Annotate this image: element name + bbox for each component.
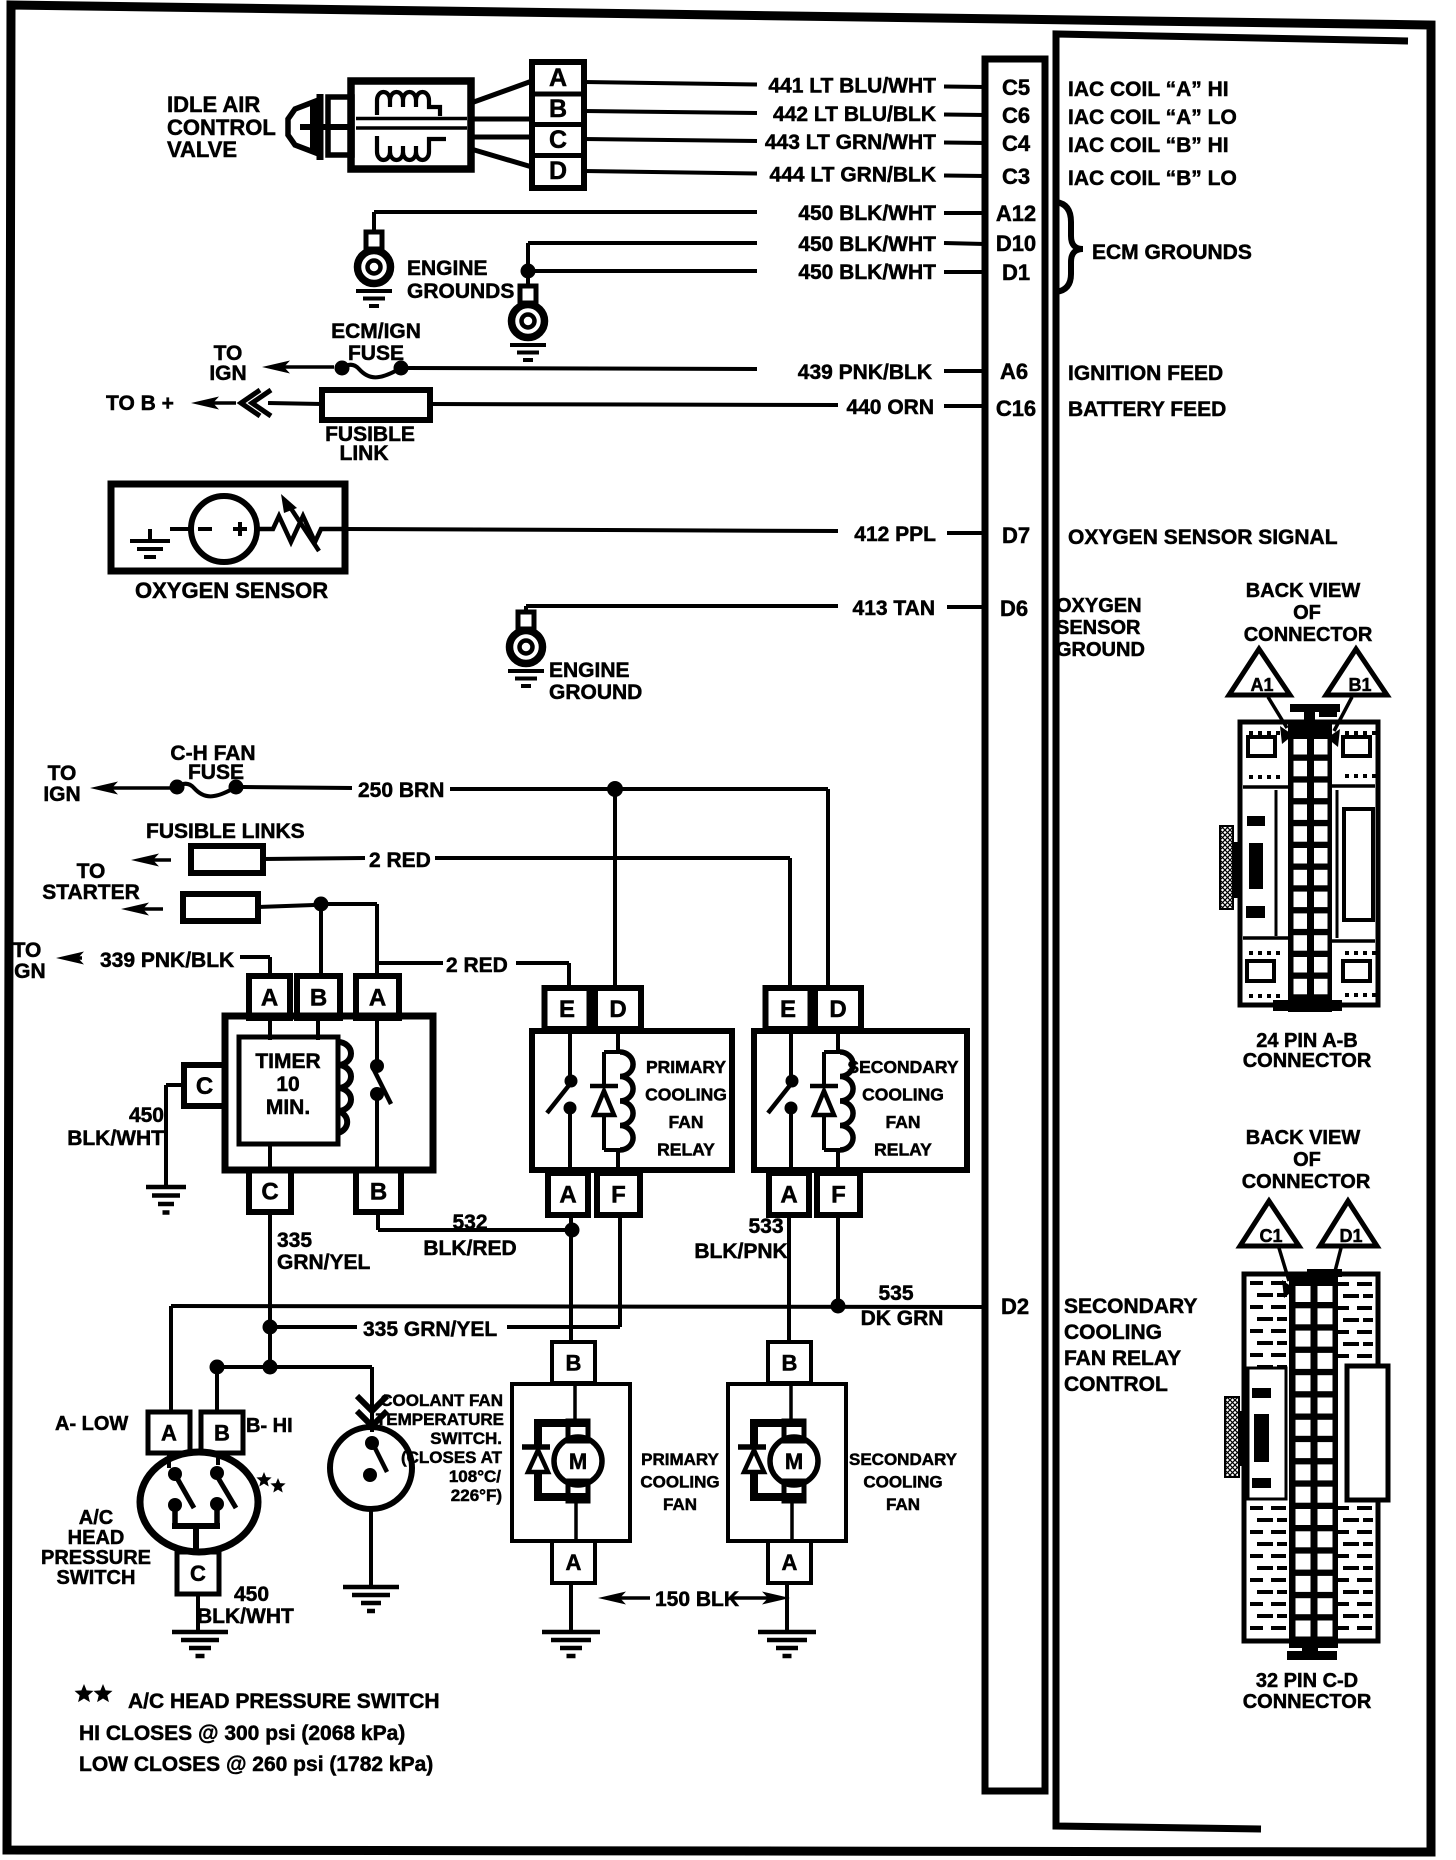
wire 532 BLK/RED [378,1211,572,1260]
wire 440 ORN [430,396,985,419]
svg-text:24 PIN A-B: 24 PIN A-B [1256,1030,1358,1052]
junction fusible link [314,897,329,912]
svg-text:IGN: IGN [43,783,80,806]
timer pin C bottom [249,1170,291,1212]
svg-text:C: C [549,126,567,154]
timer pin B top [297,976,340,1018]
svg-text:F: F [831,1182,846,1209]
wire relay F primary [618,1215,622,1327]
svg-text:HEAD: HEAD [68,1527,125,1549]
svg-text:IAC COIL “B” HI: IAC COIL “B” HI [1068,134,1229,157]
svg-text:A: A [261,985,278,1012]
svg-text:STARTER: STARTER [42,881,140,904]
label BACK VIEW OF CONNECTOR top [1244,580,1373,646]
fuse ECM/IGN [335,361,350,376]
callout triangle D1 [1320,1201,1377,1299]
svg-text:ENGINE: ENGINE [407,257,488,280]
svg-text:D10: D10 [996,231,1036,256]
wire 450 BLK/WHT D1 [528,261,985,284]
fusible link F1 [268,390,430,420]
svg-text:GROUND: GROUND [1056,639,1145,661]
wire 450 BLK/WHT timer [166,1085,184,1185]
engine ground G2 [510,286,546,360]
svg-text:TIMER: TIMER [255,1050,320,1073]
svg-text:COOLING: COOLING [640,1473,719,1492]
svg-text:ENGINE: ENGINE [549,659,630,682]
engine ground G1 [356,232,392,306]
wire 250 BRN [243,779,828,988]
svg-text:CONNECTOR: CONNECTOR [1242,1171,1371,1193]
svg-text:A: A [559,1182,576,1209]
svg-text:FAN: FAN [663,1495,697,1514]
label ECM/IGN FUSE [331,320,421,365]
IAC valve U1 [288,81,471,169]
svg-text:535: 535 [878,1282,913,1305]
A/C switch pin C [177,1552,219,1594]
primary cooling fan relay K2 [532,1029,732,1170]
label BACK VIEW OF CONNECTOR bottom [1242,1127,1371,1193]
svg-text:D: D [609,996,626,1023]
svg-text:450: 450 [129,1104,164,1127]
svg-text:BACK VIEW: BACK VIEW [1246,580,1361,602]
svg-text:440 ORN: 440 ORN [846,396,934,419]
svg-text:SECONDARY: SECONDARY [1064,1295,1197,1318]
label FUSIBLE LINK [325,423,415,465]
svg-text:532: 532 [452,1211,487,1234]
svg-text:32 PIN C-D: 32 PIN C-D [1256,1670,1358,1692]
svg-text:OXYGEN SENSOR: OXYGEN SENSOR [135,578,328,603]
svg-text:A: A [780,1182,797,1209]
svg-text:TEMPERATURE: TEMPERATURE [376,1410,504,1429]
24 pin connector body [1240,704,1378,1012]
wire 335 GRN/YEL label row [270,1318,620,1341]
wire to starter 1 [131,854,159,867]
label SECONDARY COOLING FAN RELAY CONTROL [1064,1295,1197,1396]
asterisks note [75,1684,113,1702]
svg-text:COOLING: COOLING [1064,1321,1162,1344]
svg-text:FAN: FAN [886,1495,920,1514]
svg-text:150 BLK: 150 BLK [655,1588,739,1611]
primary cooling fan M1 [512,1383,630,1541]
primary cooling fan M1 wire to ground [569,1583,573,1631]
secondary cooling fan M2 label [849,1450,958,1514]
svg-text:TO: TO [13,939,42,962]
timer pin A1 [249,976,290,1018]
chevrons battery side [241,390,271,416]
svg-text:SWITCH.: SWITCH. [430,1429,502,1448]
svg-text:A: A [782,1550,798,1575]
wire 413 TAN [526,597,985,620]
primary cooling fan M1 pin B [552,1342,595,1383]
svg-text:IAC COIL “A” LO: IAC COIL “A” LO [1068,106,1237,129]
wire relay A to fan B primary [569,1215,573,1342]
wire 450 BLK/WHT D10 [528,233,985,271]
timer pin B bottom [356,1170,401,1212]
svg-text:DK GRN: DK GRN [861,1307,944,1330]
svg-text:FAN RELAY: FAN RELAY [1064,1347,1181,1370]
wire 439 PNK/BLK [408,361,985,384]
svg-text:TO: TO [77,860,106,883]
wire IAC C to connector [471,135,532,140]
svg-text:A1: A1 [1250,675,1273,695]
wire IAC A to connector [471,81,532,103]
svg-text:B: B [549,95,567,123]
svg-text:OF: OF [1293,602,1321,624]
svg-text:CONTROL: CONTROL [1064,1373,1168,1396]
svg-text:TO: TO [48,762,77,785]
wire 441 LT BLU/WHT [584,82,757,85]
thumbscrew 32 pin [1225,1397,1246,1477]
svg-text:C1: C1 [1259,1226,1282,1246]
svg-text:C4: C4 [1002,131,1031,156]
svg-text:CONNECTOR: CONNECTOR [1244,624,1373,646]
svg-text:FAN: FAN [669,1112,704,1132]
callout triangle C1 [1240,1201,1299,1298]
svg-text:C16: C16 [996,396,1036,421]
svg-text:IGNITION FEED: IGNITION FEED [1068,362,1223,385]
label TO IGN 339 [8,939,45,983]
label 24 PIN A-B CONNECTOR [1243,1030,1372,1072]
ground A/C switch [172,1630,228,1635]
primary cooling fan relay K2 pin F [597,1173,640,1215]
primary cooling fan M1 label [640,1450,719,1514]
wire IAC D to connector [471,149,532,167]
label 450 BLK/WHT switch [197,1583,294,1628]
svg-text:IGN: IGN [209,362,246,385]
primary cooling fan relay K2 pin D [595,988,641,1029]
svg-text:(CLOSES AT: (CLOSES AT [401,1448,503,1467]
svg-text:BLK/RED: BLK/RED [423,1237,516,1260]
svg-text:COOLING: COOLING [862,1085,944,1105]
wire to ignition [262,361,290,374]
junction 335 upper [263,1320,278,1335]
asterisks switch [256,1472,271,1487]
junction 250 BRN [607,781,623,797]
svg-text:D: D [549,157,567,185]
primary cooling fan relay K2 pin A [548,1173,588,1215]
svg-text:A: A [369,985,386,1012]
svg-text:M: M [569,1449,587,1474]
svg-text:C: C [190,1561,206,1586]
svg-text:A12: A12 [996,201,1036,226]
wire 2 RED lower [258,904,377,976]
A/C switch pin B [201,1412,243,1453]
fusible link F3 [183,894,258,921]
svg-text:335 GRN/YEL: 335 GRN/YEL [363,1318,497,1341]
svg-text:450: 450 [234,1583,269,1606]
secondary cooling fan M2 wire to ground [785,1583,789,1631]
svg-text:442 LT BLU/BLK: 442 LT BLU/BLK [773,103,936,126]
label TO IGN upper [209,342,246,385]
svg-text:SECONDARY: SECONDARY [847,1057,958,1077]
timer pin C left [184,1065,225,1106]
wire 2 RED upper [263,849,790,988]
fusible link F2 [191,846,263,873]
svg-text:413 TAN: 413 TAN [853,597,935,620]
secondary cooling fan relay K3 pin E [766,988,811,1029]
svg-text:BLK/PNK: BLK/PNK [694,1240,787,1263]
svg-text:OXYGEN SENSOR SIGNAL: OXYGEN SENSOR SIGNAL [1068,526,1338,549]
label TO IGN fan [43,762,80,806]
svg-text:B: B [214,1420,230,1445]
svg-text:B: B [310,985,327,1012]
wire IAC B to connector [471,117,532,122]
svg-text:COOLING: COOLING [645,1085,727,1105]
wire switch bus [217,1367,372,1412]
A/C head pressure switch S1 [140,1452,258,1552]
secondary cooling fan M2 ground [758,1630,816,1635]
svg-text:GRN/YEL: GRN/YEL [277,1251,371,1274]
svg-text:COOLANT FAN: COOLANT FAN [380,1391,503,1410]
wire 2 RED to relay E [377,954,569,988]
label COOLANT FAN TEMPERATURE SWITCH [376,1391,504,1505]
svg-text:A6: A6 [1000,359,1028,384]
svg-text:D2: D2 [1001,1294,1029,1319]
secondary cooling fan relay K3 [754,1029,967,1170]
svg-text:444 LT GRN/BLK: 444 LT GRN/BLK [770,164,936,187]
svg-text:450 BLK/WHT: 450 BLK/WHT [798,202,936,225]
svg-text:450 BLK/WHT: 450 BLK/WHT [798,261,936,284]
svg-text:D1: D1 [1339,1226,1362,1246]
secondary cooling fan M2 pin B [768,1342,811,1383]
junction switch bus [210,1360,225,1375]
svg-text:PRIMARY: PRIMARY [646,1057,726,1077]
svg-text:E: E [780,996,796,1023]
label C-H FAN FUSE [170,742,255,784]
svg-text:RELAY: RELAY [874,1140,932,1160]
svg-text:C: C [196,1073,213,1100]
wire to starter 2 [121,903,149,916]
svg-text:441 LT BLU/WHT: 441 LT BLU/WHT [768,75,936,98]
svg-text:MIN.: MIN. [266,1096,310,1119]
svg-text:B: B [782,1350,798,1375]
svg-text:BACK VIEW: BACK VIEW [1246,1127,1361,1149]
wire 444 LT GRN/BLK [584,171,757,174]
svg-text:A: A [566,1550,582,1575]
junction grounds [521,264,536,279]
svg-text:439 PNK/BLK: 439 PNK/BLK [798,361,932,384]
wire to battery [191,397,219,410]
svg-text:FUSIBLE LINKS: FUSIBLE LINKS [146,820,305,843]
svg-text:B1: B1 [1348,675,1371,695]
svg-text:SECONDARY: SECONDARY [849,1450,958,1469]
ECM connector pin strip [985,59,1045,1791]
A/C switch pin A [148,1412,190,1453]
secondary cooling fan relay K3 pin A [769,1173,809,1215]
svg-text:C3: C3 [1002,164,1030,189]
label A/C HEAD PRESSURE SWITCH [41,1507,151,1589]
svg-text:A: A [161,1420,177,1445]
timer pin A2 [356,976,399,1018]
svg-text:VALVE: VALVE [167,137,237,162]
svg-text:C5: C5 [1002,75,1030,100]
svg-text:2 RED: 2 RED [446,954,508,977]
svg-text:IGN: IGN [8,960,45,983]
svg-text:C: C [261,1179,278,1206]
svg-text:M: M [785,1449,803,1474]
ground timer [146,1185,186,1190]
svg-text:10: 10 [276,1073,299,1096]
svg-text:IAC COIL “A” HI: IAC COIL “A” HI [1068,78,1229,101]
svg-text:SWITCH: SWITCH [57,1567,136,1589]
wire 443 LT GRN/WHT [584,139,757,141]
coolant fan temperature switch S2 [330,1396,412,1587]
fuse C-H FAN [170,780,185,795]
svg-text:A- LOW: A- LOW [55,1413,128,1435]
wire 150 BLK [598,1588,790,1611]
label ENGINE GROUND [549,659,642,704]
junction 532 [565,1223,580,1238]
svg-text:CONNECTOR: CONNECTOR [1243,1691,1372,1713]
svg-text:FAN: FAN [886,1112,921,1132]
label ENGINE GROUNDS [407,257,514,303]
svg-text:D: D [829,996,846,1023]
svg-text:GROUNDS: GROUNDS [407,280,514,303]
wire 412 PPL [345,523,985,546]
oxygen sensor B1 [111,484,345,571]
svg-text:TO B +: TO B + [106,392,174,415]
wire to ignition fan [90,782,118,795]
callout triangle B1 [1326,649,1387,747]
svg-text:339 PNK/BLK: 339 PNK/BLK [100,949,234,972]
svg-text:COOLING: COOLING [863,1473,942,1492]
svg-text:412 PPL: 412 PPL [854,523,936,546]
svg-text:GROUND: GROUND [549,681,642,704]
ground coolant switch [343,1585,399,1590]
ECM box outline [1056,34,1408,1829]
svg-text:A: A [549,64,567,92]
svg-text:250 BRN: 250 BRN [358,779,444,802]
svg-text:533: 533 [748,1215,783,1238]
svg-text:BLK/WHT: BLK/WHT [67,1127,164,1150]
primary cooling fan relay K2 pin E [545,988,590,1029]
svg-text:108°C/: 108°C/ [449,1467,501,1486]
junction 335 lower [263,1360,278,1375]
svg-text:443 LT GRN/WHT: 443 LT GRN/WHT [765,131,936,154]
svg-text:D6: D6 [1000,596,1028,621]
svg-text:LINK: LINK [340,442,389,465]
engine ground G3 [508,612,544,686]
svg-text:335: 335 [277,1229,312,1252]
primary cooling fan M1 ground [542,1630,600,1635]
wire 533 BLK/PNK [694,1215,789,1342]
svg-text:D1: D1 [1002,260,1030,285]
svg-text:F: F [611,1182,626,1209]
svg-text:RELAY: RELAY [657,1140,715,1160]
svg-text:SENSOR: SENSOR [1056,617,1141,639]
svg-text:ECM GROUNDS: ECM GROUNDS [1092,241,1252,264]
secondary cooling fan relay K3 label [847,1057,958,1160]
wire 335 GRN/YEL from timer C [270,1212,371,1367]
svg-text:B: B [370,1179,387,1206]
primary cooling fan relay K2 label [645,1057,727,1160]
label 32 PIN C-D CONNECTOR [1243,1670,1372,1713]
callout triangle A1 [1229,649,1293,744]
label TO STARTER [42,860,140,904]
secondary cooling fan M2 [728,1383,846,1541]
secondary cooling fan relay K3 pin F [817,1173,860,1215]
svg-text:LOW CLOSES @ 260 psi (1782 kPa: LOW CLOSES @ 260 psi (1782 kPa) [79,1753,433,1776]
wire 535 DK GRN [171,1282,985,1412]
IAC valve label [167,92,276,162]
junction 535 [831,1299,846,1314]
wire switch to ground [196,1594,200,1631]
wire 442 LT BLU/BLK [584,111,757,113]
thumbscrew 24 pin [1220,826,1240,909]
svg-text:PRESSURE: PRESSURE [41,1547,151,1569]
wire 339 PNK/BLK [56,949,270,976]
wire 450 BLK/WHT A12 [374,202,985,232]
svg-text:OF: OF [1293,1149,1321,1171]
svg-text:BATTERY FEED: BATTERY FEED [1068,398,1226,421]
svg-text:D7: D7 [1002,523,1030,548]
svg-text:ECM/IGN: ECM/IGN [331,320,421,343]
wire relay F secondary [836,1215,840,1306]
svg-text:FUSE: FUSE [348,342,404,365]
svg-text:A/C: A/C [79,1507,113,1529]
svg-text:B- HI: B- HI [246,1415,293,1437]
label OXYGEN SENSOR GROUND [1056,595,1145,661]
secondary cooling fan M2 pin A [768,1541,811,1583]
svg-text:226°F): 226°F) [451,1486,502,1505]
label 450 BLK/WHT timer [67,1104,164,1150]
svg-text:CONNECTOR: CONNECTOR [1243,1050,1372,1072]
svg-text:IAC COIL “B” LO: IAC COIL “B” LO [1068,167,1237,190]
ECM grounds brace [1056,202,1083,292]
primary cooling fan M1 pin A [552,1541,595,1583]
svg-text:2 RED: 2 RED [369,849,431,872]
svg-text:BLK/WHT: BLK/WHT [197,1605,294,1628]
svg-text:E: E [559,996,575,1023]
svg-text:C6: C6 [1002,103,1030,128]
secondary cooling fan relay K3 pin D [815,988,861,1029]
svg-text:B: B [566,1350,582,1375]
svg-text:450 BLK/WHT: 450 BLK/WHT [798,233,936,256]
svg-text:OXYGEN: OXYGEN [1056,595,1142,617]
svg-text:HI CLOSES @ 300 psi (2068 kPa): HI CLOSES @ 300 psi (2068 kPa) [79,1722,405,1745]
svg-text:IDLE AIR: IDLE AIR [167,92,260,117]
svg-text:PRIMARY: PRIMARY [641,1450,719,1469]
svg-text:A/C HEAD PRESSURE SWITCH: A/C HEAD PRESSURE SWITCH [128,1690,440,1713]
32 pin connector body [1244,1269,1388,1660]
IAC connector block pins A B C D [532,62,584,188]
timer module K1 [225,1016,433,1170]
